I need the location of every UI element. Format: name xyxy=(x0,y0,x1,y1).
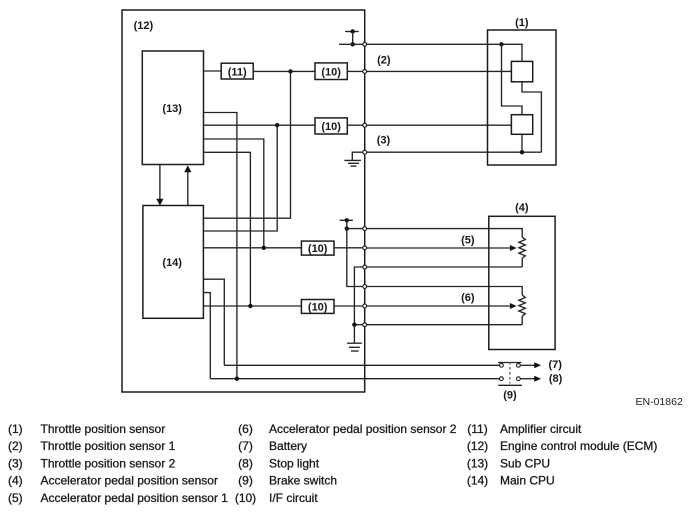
brake switch link dashed xyxy=(509,362,511,384)
wire element1 bottom to ground wire xyxy=(522,82,541,152)
arrow U14 to U13 xyxy=(184,165,191,205)
junction dot in sensor 1 xyxy=(499,42,503,46)
wiper arrow 2 xyxy=(510,303,517,309)
stop light wire (8) left segment xyxy=(210,378,499,380)
svg-text:(14): (14) xyxy=(467,474,488,488)
battery wire (7) right segment xyxy=(521,364,535,366)
wire U13 to amplifier U11 xyxy=(204,70,222,72)
svg-text:(4): (4) xyxy=(515,202,529,214)
amplifier circuit box U11 xyxy=(221,63,253,79)
svg-text:(1): (1) xyxy=(8,422,23,436)
svg-text:Accelerator pedal position sen: Accelerator pedal position sensor 2 xyxy=(269,422,457,436)
svg-text:(10): (10) xyxy=(308,301,328,313)
wire U14 pinD down to battery wire xyxy=(203,279,224,365)
junction dot lower supply xyxy=(345,226,349,230)
svg-text:Accelerator pedal position sen: Accelerator pedal position sensor 1 xyxy=(41,491,229,505)
svg-text:(8): (8) xyxy=(549,373,563,385)
I/F circuit box 10a xyxy=(315,63,347,80)
svg-text:Accelerator pedal position sen: Accelerator pedal position sensor xyxy=(41,474,218,488)
svg-text:(5): (5) xyxy=(8,491,23,505)
supply wire to potentiometer 1 xyxy=(347,229,522,238)
power tap bar lower xyxy=(340,219,353,221)
svg-text:Throttle position sensor 1: Throttle position sensor 1 xyxy=(41,439,176,453)
wiper arrow 1 xyxy=(510,245,517,251)
wiper wire (5) xyxy=(365,247,511,249)
ECM border pin circles xyxy=(363,42,367,326)
jog pin bottom pot1 to sensor ground xyxy=(354,267,364,325)
svg-text:(12): (12) xyxy=(467,439,488,453)
wire U14 pinB up to 10b input node xyxy=(203,125,277,231)
wire U13 pin4 down to node F xyxy=(204,152,251,306)
wire U13 to I/F box 10b xyxy=(204,124,316,126)
svg-text:(5): (5) xyxy=(461,234,475,246)
svg-text:(7): (7) xyxy=(238,439,253,453)
wire U14 pinF to I/F box 10d xyxy=(203,305,301,307)
svg-text:(2): (2) xyxy=(377,55,391,67)
sensor element 1 square xyxy=(511,61,532,81)
wire U14 pinA up to amplifier output node xyxy=(203,71,290,218)
brake switch base bar xyxy=(498,384,522,386)
svg-text:(1): (1) xyxy=(515,17,529,29)
wire U13 pin3 down to node C xyxy=(204,139,264,248)
supply wire to throttle sensor xyxy=(353,43,502,45)
svg-text:(11): (11) xyxy=(228,66,247,78)
svg-text:(3): (3) xyxy=(8,456,23,470)
I/F circuit box 10b xyxy=(315,118,347,134)
svg-text:Amplifier circuit: Amplifier circuit xyxy=(500,422,582,436)
junction dot on wire 3 xyxy=(520,150,524,154)
svg-text:Brake switch: Brake switch xyxy=(269,474,337,488)
branch supply to potentiometer 2 xyxy=(347,229,522,295)
wire U13 pin1 down to stop light wire xyxy=(204,113,237,379)
legend column 3 xyxy=(467,422,658,488)
power tap bar top xyxy=(345,31,359,33)
svg-text:(4): (4) xyxy=(8,474,23,488)
wire supply to element2 top xyxy=(502,44,523,114)
svg-text:(10): (10) xyxy=(235,491,256,505)
svg-text:(13): (13) xyxy=(467,456,488,470)
legend column 2 xyxy=(235,422,457,505)
jog pin bottom pot2 to sensor ground xyxy=(354,324,364,326)
potentiometer 1 bottom wire xyxy=(365,266,523,268)
junction dot sensor ground xyxy=(352,323,356,327)
junction dot node F xyxy=(248,304,252,308)
potentiometer 1 zigzag xyxy=(519,237,525,267)
svg-text:Main CPU: Main CPU xyxy=(500,474,555,488)
throttle position sensor box U1 xyxy=(488,30,557,165)
svg-text:(6): (6) xyxy=(238,422,253,436)
battery wire (7) left segment xyxy=(224,364,499,366)
wire box 10c to ECM pin 5 xyxy=(334,247,365,249)
svg-text:(7): (7) xyxy=(549,359,563,371)
throttle sensor ground wire (3) xyxy=(365,151,542,153)
wiper wire (6) xyxy=(365,305,511,307)
svg-text:Sub CPU: Sub CPU xyxy=(500,456,550,470)
wire box 10b to sensor lower element xyxy=(347,124,511,126)
svg-text:(13): (13) xyxy=(162,103,182,115)
sensor element 2 square xyxy=(511,115,532,135)
svg-text:(9): (9) xyxy=(238,474,253,488)
accelerator pedal position sensor box U4 xyxy=(489,216,555,349)
wire supply to element1 top xyxy=(502,44,523,61)
riser top power tap xyxy=(352,32,354,45)
junction dot on stop light wire xyxy=(235,377,239,381)
arrow U13 to U14 xyxy=(156,165,163,206)
svg-text:Throttle position sensor 2: Throttle position sensor 2 xyxy=(41,456,176,470)
junction dot top supply xyxy=(351,42,355,46)
dot on lower power tap xyxy=(345,218,349,222)
arrow to battery xyxy=(534,362,541,368)
wire U11 to I/F box 10a xyxy=(253,70,315,72)
riser lower power tap xyxy=(346,220,348,228)
wire box 10a to ECM pin 2 and sensor element xyxy=(347,70,511,72)
junction dot on (11)-(10) wire xyxy=(288,69,292,73)
ground inside ECM lower xyxy=(347,325,362,351)
junction dot on U13-(10b) wire xyxy=(275,123,279,127)
svg-text:Throttle position sensor: Throttle position sensor xyxy=(41,422,166,436)
svg-text:(2): (2) xyxy=(8,439,23,453)
stop light wire (8) right segment xyxy=(521,378,535,380)
svg-text:(10): (10) xyxy=(321,66,341,78)
brake switch contact bar closed xyxy=(498,362,521,364)
potentiometer 2 bottom wire xyxy=(365,324,523,326)
engine control module box U12 xyxy=(122,10,365,392)
I/F circuit box 10d xyxy=(301,300,334,314)
potentiometer 2 zigzag xyxy=(519,295,525,325)
svg-text:(10): (10) xyxy=(308,243,328,255)
wire element2 bottom to ground dot xyxy=(521,134,523,152)
wire U14 pinE down to stop light wire xyxy=(203,293,210,379)
svg-text:(8): (8) xyxy=(238,456,253,470)
svg-text:Engine control module (ECM): Engine control module (ECM) xyxy=(500,439,657,453)
junction dot node C xyxy=(262,246,266,250)
svg-text:(3): (3) xyxy=(377,134,391,146)
stub left of top supply xyxy=(339,43,353,45)
svg-text:Stop light: Stop light xyxy=(269,456,320,470)
svg-text:(14): (14) xyxy=(162,257,182,269)
svg-text:(9): (9) xyxy=(503,390,517,402)
svg-text:(11): (11) xyxy=(467,422,487,436)
dot on top power tap xyxy=(351,29,355,33)
svg-text:EN-01862: EN-01862 xyxy=(636,396,683,408)
wire U14 pinC to I/F box 10c xyxy=(203,247,301,249)
brake switch contact circles xyxy=(500,363,521,380)
svg-text:(6): (6) xyxy=(461,292,475,304)
main CPU box U14 xyxy=(143,206,204,319)
arrow to stop light xyxy=(534,376,541,382)
wire box 10d to ECM pin 6 xyxy=(334,305,365,307)
svg-text:(10): (10) xyxy=(321,121,341,133)
ground inside ECM top xyxy=(344,152,364,166)
svg-text:(12): (12) xyxy=(134,20,154,32)
legend column 1 xyxy=(8,422,228,505)
I/F circuit box 10c xyxy=(301,241,334,255)
sub CPU box U13 xyxy=(142,51,203,165)
svg-text:I/F circuit: I/F circuit xyxy=(269,491,318,505)
svg-text:Battery: Battery xyxy=(269,439,307,453)
